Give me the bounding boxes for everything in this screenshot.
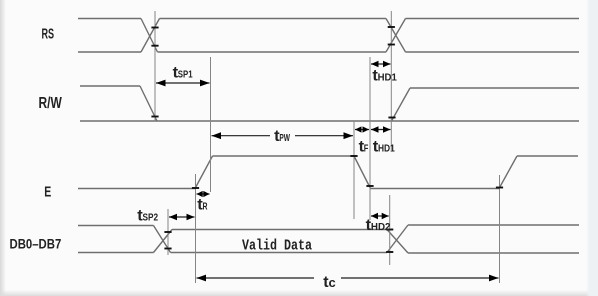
svg-text:F: F bbox=[364, 143, 369, 155]
label tHD2 bbox=[366, 217, 391, 234]
svg-text:E: E bbox=[44, 183, 51, 200]
tick E fall start bbox=[350, 155, 357, 157]
tick DB X1 upper bbox=[164, 231, 171, 233]
svg-text:SP2: SP2 bbox=[143, 212, 159, 224]
svg-text:HD1: HD1 bbox=[378, 72, 397, 84]
dimension tHD2 bbox=[371, 213, 389, 219]
dimension tSP1 bbox=[156, 80, 210, 87]
tick R/W rise bbox=[388, 117, 395, 119]
svg-text:R/W: R/W bbox=[39, 95, 63, 112]
svg-text:PW: PW bbox=[279, 132, 290, 144]
label tc bbox=[323, 274, 336, 291]
dimension tR bbox=[197, 191, 210, 197]
ref vertical V2 (E rise) bbox=[210, 57, 212, 192]
R/W right high rail bbox=[410, 87, 579, 89]
svg-text:HD1: HD1 bbox=[378, 143, 395, 155]
RS crossover X2 bbox=[386, 19, 406, 53]
label tHD1 upper bbox=[372, 68, 397, 85]
ref vertical V5 (DB change) bbox=[167, 209, 169, 255]
E second rising edge bbox=[499, 156, 517, 189]
E high segment bbox=[213, 155, 355, 157]
tick RS X1 lower bbox=[151, 45, 158, 47]
RS middle both-rails segment bbox=[158, 19, 387, 53]
ref vertical V7 (DB hold) bbox=[389, 195, 391, 265]
tick DB X2 upper bbox=[386, 229, 393, 231]
dimension tF bbox=[355, 126, 369, 132]
tick DB X2 lower bbox=[386, 251, 393, 253]
ref vertical V8 (next E rise) bbox=[499, 175, 501, 283]
R/W low rail (continuous) bbox=[80, 120, 579, 122]
tick E rise bbox=[192, 187, 199, 189]
DB valid-data cell rails bbox=[171, 230, 388, 253]
DB crossover X2 bbox=[387, 225, 408, 253]
dimension tHD1 upper bbox=[371, 61, 391, 67]
R/W rising edge (right, may-change) bbox=[392, 88, 411, 121]
svg-text:c: c bbox=[329, 275, 336, 290]
signal E: left low segment bbox=[78, 188, 195, 190]
label tR bbox=[197, 197, 207, 214]
svg-text:RS: RS bbox=[42, 26, 55, 42]
E falling edge bbox=[354, 156, 371, 189]
tick RS X2 upper bbox=[388, 26, 395, 28]
tick E rise 2 bbox=[496, 187, 503, 189]
RS right both-rails segment bbox=[406, 19, 580, 53]
svg-text:HD2: HD2 bbox=[371, 221, 391, 233]
label tF bbox=[359, 139, 369, 156]
signal RS: left both-rails segment bbox=[78, 19, 579, 254]
tick E fall end bbox=[366, 185, 373, 187]
tick DB X1 lower bbox=[164, 248, 171, 250]
tick R/W fall bbox=[151, 116, 158, 118]
ref vertical V1 (RS/RW setup) bbox=[154, 11, 156, 121]
E right high segment bbox=[517, 155, 578, 157]
ref vertical V3b (E fall end) bbox=[369, 57, 371, 220]
ref vertical V4 (RS/RW hold) bbox=[390, 11, 392, 150]
dimension tPW bbox=[212, 132, 354, 139]
ref vertical V6 (E rise, DB row) bbox=[195, 174, 197, 283]
svg-text:DB0–DB7: DB0–DB7 bbox=[10, 235, 62, 251]
signal R/W: left high rail bbox=[80, 85, 140, 87]
svg-text:Valid Data: Valid Data bbox=[242, 239, 312, 255]
RS crossover X1 bbox=[141, 19, 160, 53]
E low segment bbox=[371, 188, 500, 190]
label tSP2 bbox=[137, 208, 158, 225]
DB right both-rails segment bbox=[408, 225, 579, 253]
dimension tSP2 bbox=[169, 214, 195, 221]
label tPW bbox=[274, 128, 290, 145]
dimension tC bbox=[197, 275, 499, 282]
ref vertical V3a (E fall start) bbox=[353, 121, 355, 219]
label tSP1 bbox=[173, 64, 193, 81]
svg-text:SP1: SP1 bbox=[178, 68, 193, 80]
label tHD1 lower bbox=[373, 139, 395, 156]
tick RS X2 lower bbox=[388, 44, 395, 46]
DB crossover X1 bbox=[154, 226, 173, 253]
dimension tHD1 lower bbox=[371, 126, 391, 132]
signal DB0-DB7: left both-rails segment bbox=[78, 226, 154, 253]
R/W falling edge bbox=[140, 86, 157, 121]
svg-text:R: R bbox=[203, 201, 208, 213]
E rising edge bbox=[195, 156, 213, 189]
tick RS X1 upper bbox=[151, 27, 158, 29]
